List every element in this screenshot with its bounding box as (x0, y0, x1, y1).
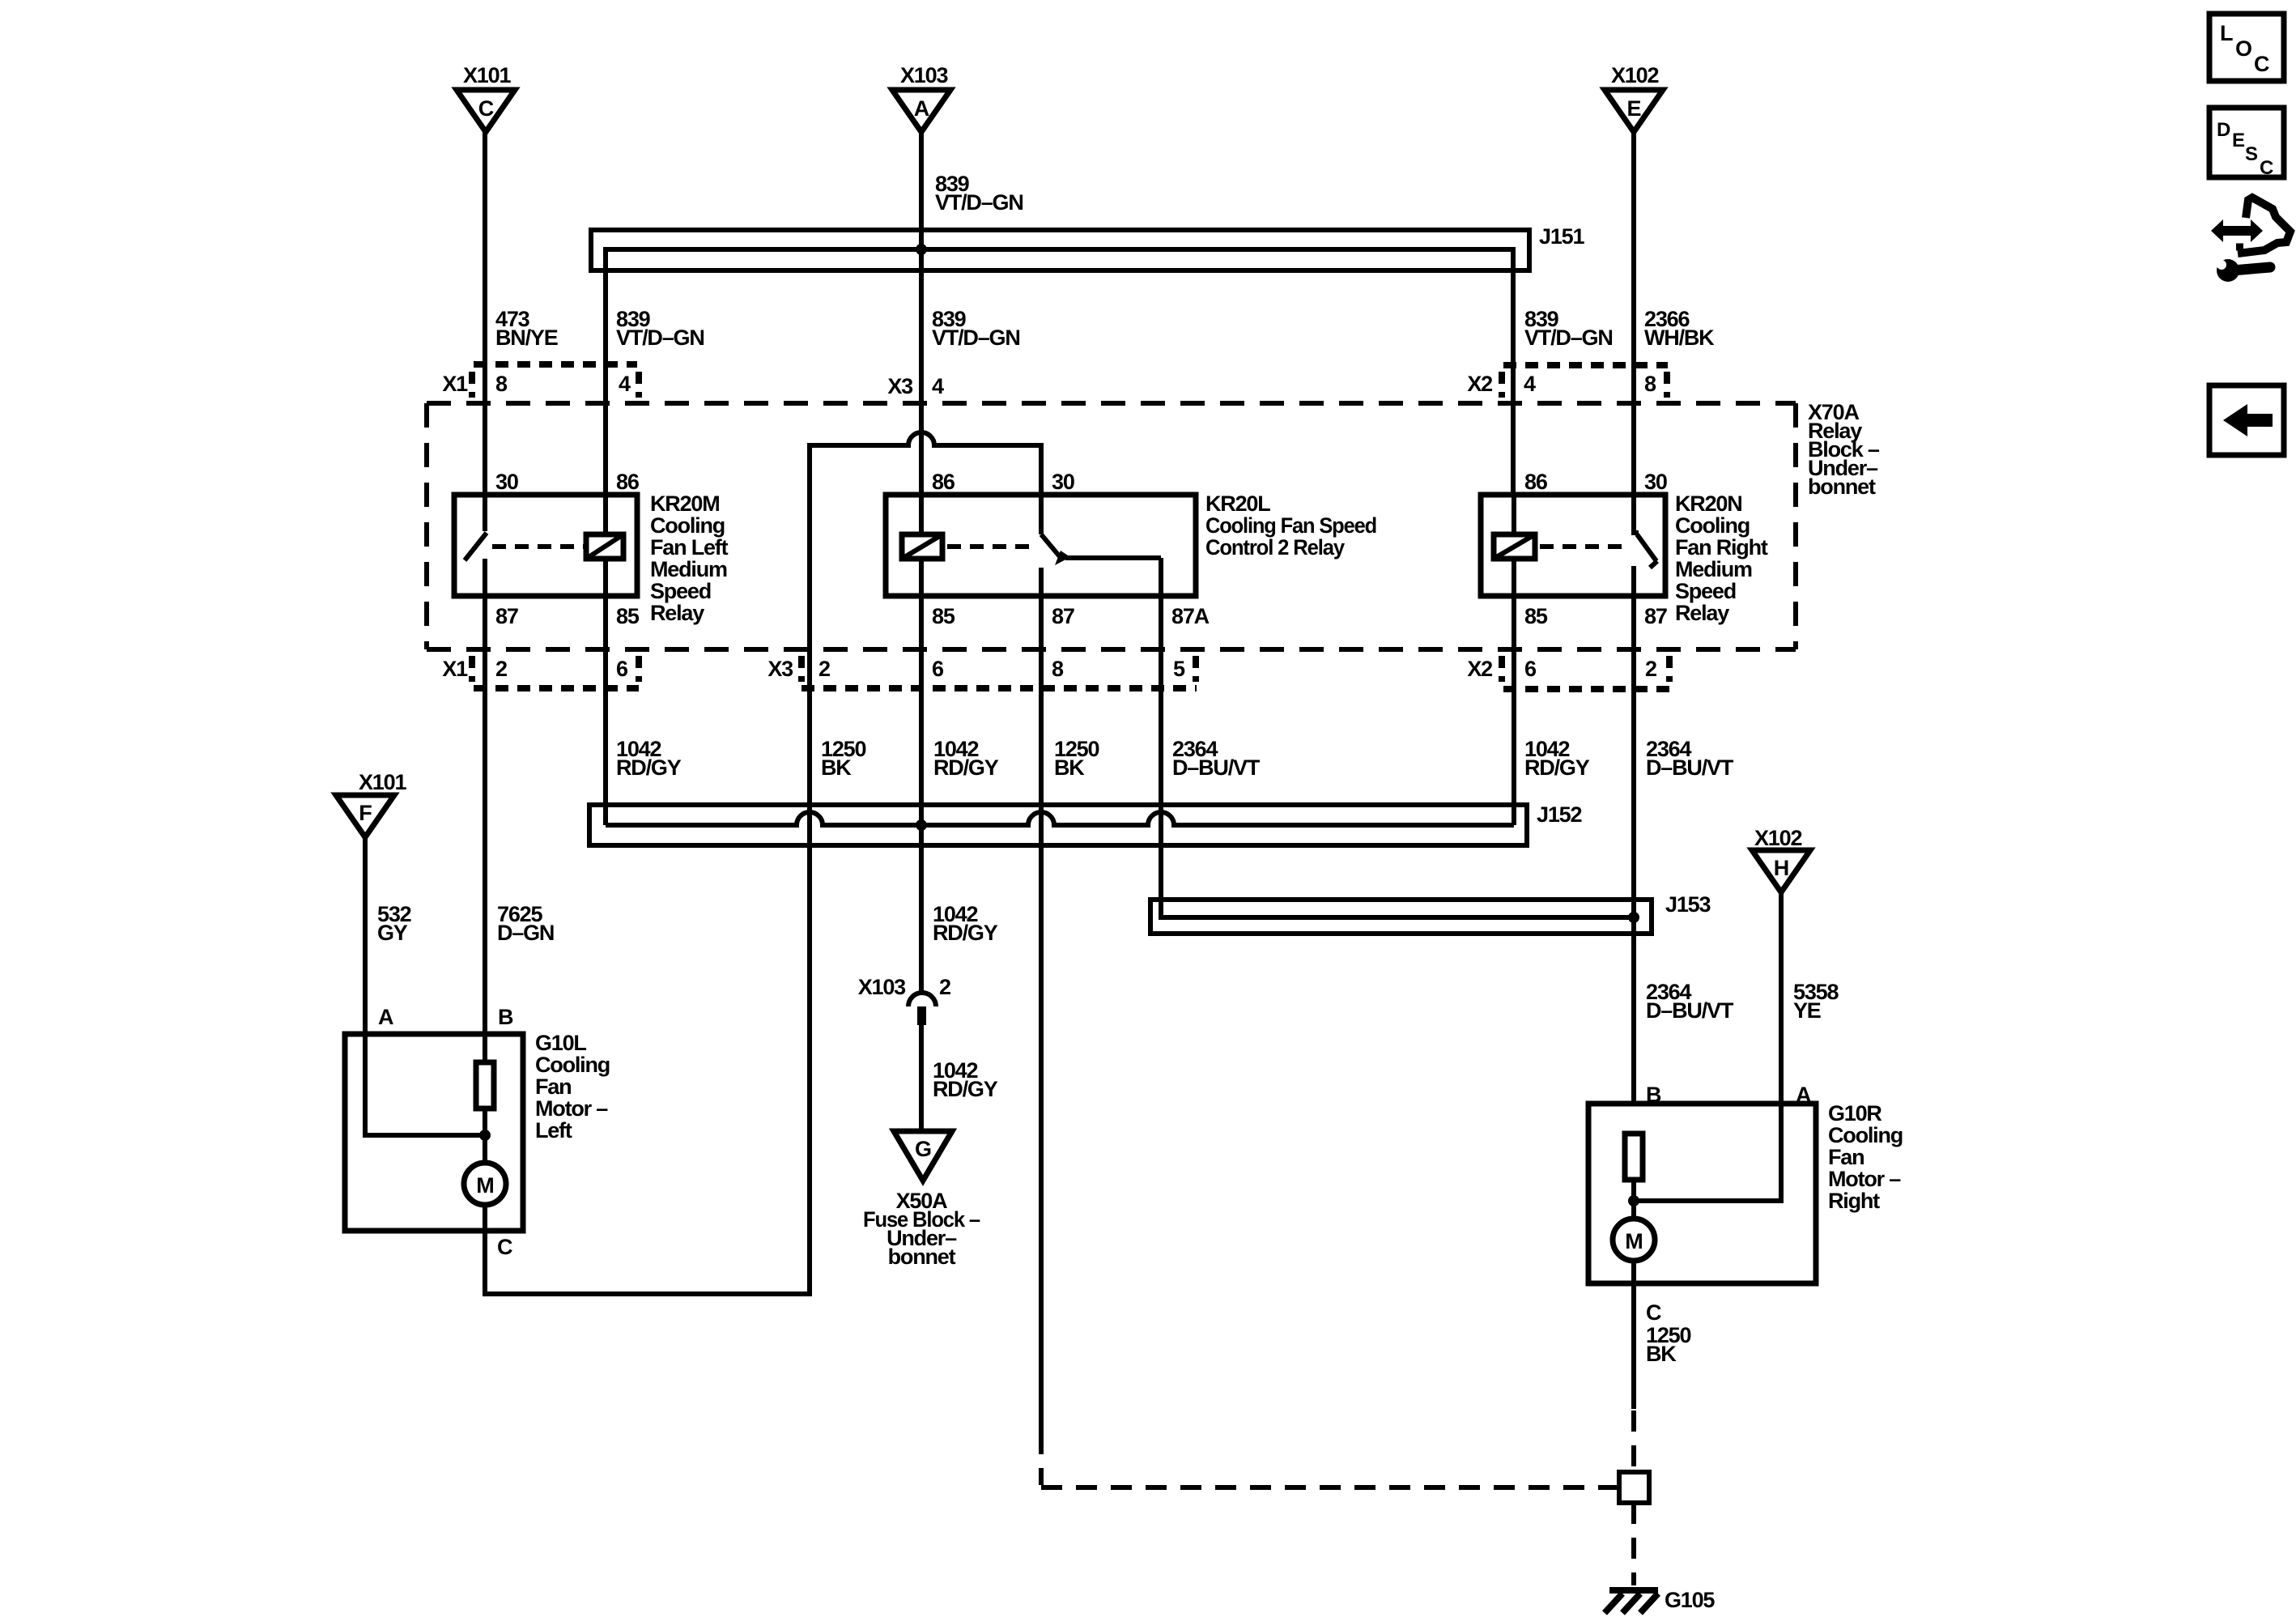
connector triangle X101-F (336, 770, 406, 837)
connector triangle X102-H (1752, 826, 1810, 892)
wire 1250 BK from G10R pin C (1634, 1283, 1690, 1409)
svg-text:Relay: Relay (1675, 601, 1729, 625)
svg-text:Fan Left: Fan Left (650, 535, 729, 560)
svg-text:WH/BK: WH/BK (1644, 326, 1715, 350)
svg-text:A: A (914, 96, 929, 121)
svg-text:bonnet: bonnet (888, 1245, 956, 1269)
svg-text:E: E (1626, 96, 1640, 121)
wire 1042 RD/GY from KR20M pin 85 to J152 (606, 596, 682, 825)
svg-text:30: 30 (1644, 470, 1667, 494)
svg-text:Cooling: Cooling (1675, 513, 1750, 538)
splice box on ground path (1619, 1472, 1649, 1503)
svg-text:RD/GY: RD/GY (1524, 755, 1590, 780)
svg-text:C: C (497, 1235, 512, 1259)
svg-text:Control 2 Relay: Control 2 Relay (1205, 535, 1345, 560)
svg-text:30: 30 (495, 470, 518, 494)
svg-text:VT/D–GN: VT/D–GN (616, 326, 704, 350)
svg-text:6: 6 (932, 657, 944, 681)
connector triangle X103-A (892, 63, 950, 132)
motor G10L Cooling Fan Motor Left (345, 1031, 610, 1231)
svg-text:KR20M: KR20M (650, 491, 720, 516)
connector X103 pin 2 (858, 975, 950, 1025)
svg-text:8: 8 (1644, 372, 1656, 396)
svg-text:85: 85 (1524, 604, 1548, 628)
svg-text:Motor –: Motor – (535, 1096, 608, 1121)
svg-text:J153: J153 (1665, 892, 1711, 917)
svg-text:4: 4 (619, 372, 631, 396)
svg-text:E: E (2232, 130, 2245, 151)
connector X3 upper pin 4 (887, 374, 944, 398)
svg-text:86: 86 (616, 470, 640, 494)
svg-text:86: 86 (1524, 470, 1548, 494)
svg-text:X3: X3 (887, 374, 913, 398)
wire from X103 pin 2 to X50A fuse block triangle G (919, 1025, 924, 1131)
svg-text:O: O (2235, 36, 2251, 61)
svg-text:G: G (915, 1137, 931, 1161)
icon DESC box (2209, 108, 2284, 179)
relay KR20N pin labels 85 87 (1524, 604, 1667, 628)
svg-text:Motor –: Motor – (1828, 1167, 1901, 1191)
svg-text:YE: YE (1793, 998, 1821, 1023)
svg-text:2: 2 (939, 975, 950, 999)
ground G105 (1605, 1588, 1715, 1613)
svg-text:4: 4 (1524, 372, 1536, 396)
svg-text:X102: X102 (1754, 826, 1801, 850)
relay KR20L pin labels 86 30 (932, 470, 1074, 494)
wire 1042 RD/GY from KR20N pin 85 to J152 (1514, 596, 1590, 825)
svg-text:VT/D–GN: VT/D–GN (935, 190, 1023, 215)
svg-text:X2: X2 (1467, 657, 1492, 681)
svg-text:Medium: Medium (1675, 557, 1752, 581)
svg-text:Cooling: Cooling (535, 1053, 610, 1077)
wire 1042 RD/GY labels around X103 pin 2 (933, 902, 998, 1101)
svg-text:H: H (1774, 856, 1789, 880)
svg-text:BK: BK (821, 755, 852, 780)
svg-text:D–GN: D–GN (497, 921, 554, 945)
wire 532 GY from X101-F to G10L pin A (365, 837, 485, 1135)
svg-text:B: B (498, 1005, 513, 1029)
junction J151 (591, 224, 1584, 495)
wire 7625 D-GN from KR20M pin 87 to G10L pin B (485, 596, 554, 1062)
connector X2 lower row pins 6 and 2 (1467, 656, 1669, 689)
svg-text:87: 87 (495, 604, 518, 628)
svg-text:G105: G105 (1665, 1588, 1715, 1612)
dashed wire from KR20L pin 87 to splice box (1041, 1433, 1619, 1487)
wire 839 VT/D-GN label from J151 right stub to KR20N pin 86 (1524, 307, 1613, 350)
svg-text:C: C (478, 96, 494, 121)
svg-text:87: 87 (1644, 604, 1667, 628)
node junction dot on J152 at 1042 wire (916, 819, 927, 831)
connector X2 upper row pins 4 and 8 (1467, 365, 1668, 398)
wire 2364 D-BU/VT from KR20N pin 87 to J153 to G10R pin B (1634, 596, 1734, 1104)
motor G10R Cooling Fan Motor Right (1588, 1101, 1903, 1283)
icon LOC box (2209, 14, 2284, 81)
junction J153 (1150, 892, 1711, 934)
svg-text:6: 6 (1524, 657, 1537, 681)
svg-text:Cooling Fan Speed: Cooling Fan Speed (1205, 513, 1376, 538)
relay block X70A dashed outline (427, 400, 1880, 649)
wire 2364 D-BU/VT label above G10R pin B (1646, 980, 1734, 1023)
relay KR20M pin labels 87 85 (495, 604, 640, 628)
wire 5358 YE from X102-H to G10R pin A (1634, 892, 1839, 1201)
svg-text:VT/D–GN: VT/D–GN (932, 326, 1020, 350)
relay KR20L Cooling Fan Speed Control 2 Relay (886, 491, 1376, 596)
node junction dot on J153 at 2364 wire (1628, 912, 1639, 923)
svg-text:X1: X1 (442, 657, 468, 681)
svg-text:87: 87 (1052, 604, 1074, 628)
wire 1250 BK label on X3 pin 2 wire (821, 737, 865, 780)
relay KR20N Cooling Fan Right Medium Speed Relay (1481, 491, 1768, 625)
svg-text:A: A (378, 1005, 393, 1029)
svg-text:Cooling: Cooling (1828, 1123, 1903, 1147)
svg-text:D–BU/VT: D–BU/VT (1646, 755, 1734, 780)
svg-text:Left: Left (535, 1118, 572, 1143)
wire 2364 D-BU/VT from KR20L pin 87A to J153 (1161, 558, 1634, 917)
svg-text:J151: J151 (1539, 224, 1584, 249)
svg-text:X1: X1 (442, 372, 468, 396)
svg-text:Fan Right: Fan Right (1675, 535, 1768, 560)
svg-text:Right: Right (1828, 1189, 1880, 1213)
svg-text:2: 2 (1645, 657, 1656, 681)
svg-text:X103: X103 (858, 975, 906, 999)
wire 839 VT/D-GN from X103-A through J151 to KR20L pin 86 (921, 132, 1023, 495)
connector X3 lower row pins 2 6 8 5 (767, 656, 1197, 688)
svg-text:D: D (2217, 119, 2230, 141)
svg-text:C: C (1646, 1300, 1661, 1325)
wire 2366 WH/BK from X102-E to KR20N pin 30 (1634, 132, 1715, 495)
relay KR20M Cooling Fan Left Medium Speed Relay (454, 491, 729, 625)
connector triangle X101-C (457, 63, 515, 132)
dashed wire from G10R pin C to splice box (1631, 1411, 1636, 1472)
svg-text:RD/GY: RD/GY (933, 755, 999, 780)
relay KR20N pin labels 86 30 (1524, 470, 1667, 494)
svg-text:85: 85 (932, 604, 955, 628)
ground triangle G X50A Fuse Block Underbonnet (863, 1131, 980, 1269)
svg-text:X3: X3 (767, 657, 793, 681)
svg-text:BK: BK (1646, 1342, 1677, 1366)
svg-text:RD/GY: RD/GY (933, 1077, 998, 1101)
wire 1250 BK from KR20L pin 87 down (1041, 596, 1099, 1433)
svg-text:L: L (2220, 21, 2233, 45)
svg-text:BK: BK (1054, 755, 1085, 780)
svg-text:G10R: G10R (1828, 1101, 1881, 1126)
svg-text:Speed: Speed (650, 579, 711, 603)
junction J152 (589, 802, 1581, 845)
svg-text:RD/GY: RD/GY (933, 921, 998, 945)
svg-text:5: 5 (1173, 657, 1185, 681)
svg-text:X101: X101 (463, 63, 511, 87)
svg-text:86: 86 (932, 470, 955, 494)
wire 473 BN/YE from X101-C to KR20M pin 30 (485, 132, 558, 495)
connector X1 upper row pins 8 and 4 (442, 364, 639, 398)
svg-text:X102: X102 (1611, 63, 1658, 87)
svg-text:Speed: Speed (1675, 579, 1736, 603)
svg-text:Medium: Medium (650, 557, 727, 581)
svg-text:GY: GY (377, 921, 408, 945)
relay KR20L pin labels 85 87 87A (932, 604, 1210, 628)
svg-text:M: M (476, 1173, 494, 1198)
svg-text:M: M (1625, 1229, 1643, 1253)
icon back arrow box (2209, 385, 2284, 455)
svg-text:8: 8 (495, 372, 508, 396)
svg-text:J152: J152 (1537, 802, 1581, 827)
svg-text:2: 2 (818, 657, 830, 681)
node junction dot on J151 at A wire (916, 244, 927, 255)
svg-text:G10L: G10L (535, 1031, 586, 1055)
svg-text:Cooling: Cooling (650, 513, 725, 538)
svg-text:RD/GY: RD/GY (616, 755, 682, 780)
svg-text:2: 2 (495, 657, 507, 681)
svg-text:KR20L: KR20L (1205, 491, 1270, 516)
svg-text:X101: X101 (359, 770, 406, 794)
svg-text:Fan: Fan (1828, 1145, 1864, 1169)
svg-text:BN/YE: BN/YE (495, 326, 558, 350)
svg-text:C: C (2254, 52, 2269, 76)
svg-text:Fan: Fan (535, 1074, 571, 1099)
connector X1 lower row pins 2 and 6 (442, 656, 639, 688)
svg-text:30: 30 (1052, 470, 1074, 494)
svg-text:bonnet: bonnet (1808, 474, 1876, 499)
wire 839 VT/D-GN label from J151 left stub to KR20M pin 86 (616, 307, 704, 350)
connector triangle X102-E (1605, 63, 1663, 132)
svg-text:87A: 87A (1171, 604, 1210, 628)
svg-text:X103: X103 (900, 63, 948, 87)
svg-text:D–BU/VT: D–BU/VT (1646, 998, 1734, 1023)
relay KR20M pin labels 30 86 (495, 470, 640, 494)
svg-text:F: F (359, 801, 372, 825)
svg-text:X2: X2 (1467, 372, 1492, 396)
svg-text:4: 4 (932, 374, 944, 398)
dashed wire from splice box to ground G105 (1631, 1503, 1636, 1585)
svg-text:6: 6 (616, 657, 628, 681)
icon diagnostic tool with arrow and wrench (2211, 198, 2290, 282)
svg-text:85: 85 (616, 604, 640, 628)
svg-text:D–BU/VT: D–BU/VT (1172, 755, 1261, 780)
svg-text:C: C (2260, 157, 2273, 179)
svg-text:VT/D–GN: VT/D–GN (1524, 326, 1613, 350)
wire crossover from KR20L pin 30 to X3 pin 2 down to G10L pin C (485, 432, 1041, 1294)
wire 1042 RD/GY from KR20L pin 85 to J152 and X103 (921, 596, 999, 993)
svg-text:S: S (2245, 143, 2258, 165)
svg-text:Relay: Relay (650, 601, 704, 625)
svg-text:KR20N: KR20N (1675, 491, 1742, 516)
svg-text:8: 8 (1052, 657, 1064, 681)
